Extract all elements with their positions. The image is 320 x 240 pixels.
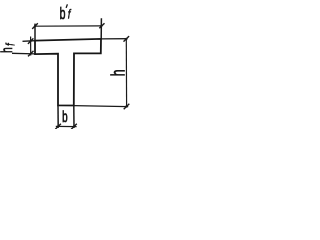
wire h'f dimension line: [30, 37, 32, 56]
wire b extension left: [57, 106, 59, 128]
tick h'f top: [28, 38, 34, 44]
svg-text:f: f: [68, 8, 72, 22]
T-beam section outline: [35, 39, 101, 106]
wire h'f top extension: [23, 40, 36, 43]
junction blobs: [30, 25, 128, 128]
wire h bottom extension: [74, 106, 128, 107]
svg-text:f: f: [5, 42, 18, 45]
svg-text:b: b: [60, 3, 66, 22]
label b'f: [60, 3, 72, 22]
tick b left: [55, 124, 61, 130]
wire h'f bottom extension: [12, 52, 35, 55]
tick h top: [124, 36, 130, 42]
wire h top extension: [101, 38, 128, 40]
wire b'f dimension line: [35, 25, 102, 27]
tick b'f left: [32, 23, 38, 29]
tick b right: [71, 124, 77, 130]
tick h bottom: [124, 104, 130, 110]
wire b'f extension left: [34, 24, 36, 41]
svg-text:h: h: [109, 70, 129, 77]
svg-text:b: b: [62, 108, 68, 126]
wire b extension right: [73, 106, 75, 128]
tick h'f bottom: [28, 51, 34, 57]
label h'f (rotated): [0, 42, 18, 52]
wire b'f extension right: [100, 18, 102, 39]
wire h dimension line: [125, 39, 127, 107]
tick b'f right: [99, 23, 104, 28]
wire b dimension line: [56, 125, 77, 127]
svg-text:h: h: [0, 47, 16, 53]
